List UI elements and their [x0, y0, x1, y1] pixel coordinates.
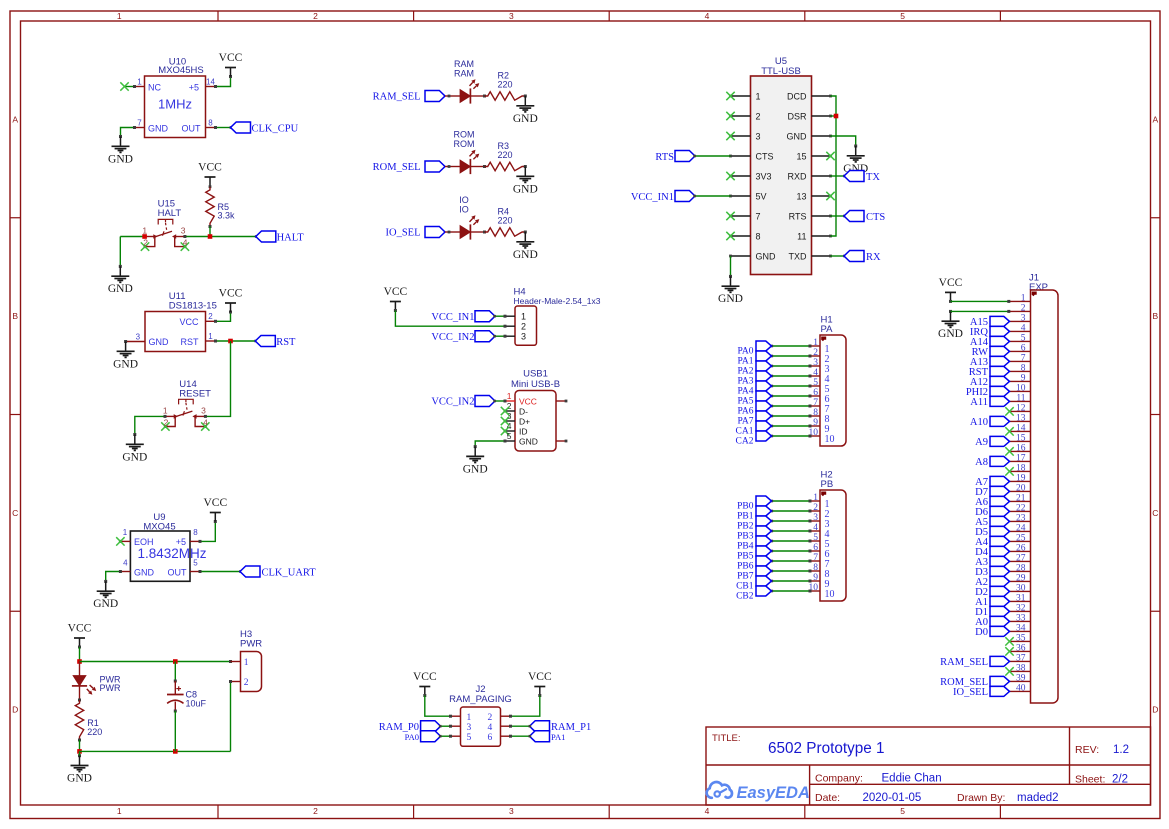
wire U5 RTS to CTS port: [831, 215, 846, 218]
svg-text:VCC: VCC: [519, 396, 537, 406]
svg-text:PA: PA: [821, 324, 834, 335]
svg-text:VCC: VCC: [413, 671, 437, 683]
LED PWR: [72, 662, 96, 701]
svg-text:TITLE:: TITLE:: [712, 733, 741, 744]
svg-text:RAM: RAM: [454, 59, 474, 69]
wire VCC to J2 pin1: [425, 696, 452, 718]
svg-text:OUT: OUT: [182, 124, 202, 134]
svg-text:2: 2: [143, 237, 148, 247]
rev label: [1075, 744, 1129, 756]
svg-text:IO: IO: [459, 205, 469, 215]
svg-text:25: 25: [1016, 534, 1026, 544]
USB1 pin 5 GND: [505, 431, 538, 447]
svg-text:PA0: PA0: [405, 732, 419, 742]
svg-text:5V: 5V: [756, 191, 767, 201]
J1 port net labels: [940, 317, 989, 698]
date label: [815, 792, 1059, 804]
svg-text:A8: A8: [975, 457, 988, 468]
wire ROM_SEL port to LED: [445, 165, 460, 168]
svg-text:VCC: VCC: [939, 277, 963, 289]
R5 value labels: [218, 202, 236, 221]
svg-text:2020-01-05: 2020-01-05: [863, 792, 922, 804]
wire VCC_IN1 port to U5 5V: [693, 195, 730, 198]
svg-text:GND: GND: [513, 113, 538, 125]
wire U11 pin1 to RST port: [214, 340, 257, 343]
svg-text:DSR: DSR: [787, 111, 807, 121]
wire VCC to H4 pin2: [395, 311, 506, 328]
border zone numbers bottom: [117, 806, 905, 816]
wire USB1 pin5 to ground: [474, 440, 507, 449]
svg-text:5: 5: [900, 806, 905, 816]
svg-text:27: 27: [1016, 554, 1026, 564]
LED PWR labels: [100, 674, 121, 693]
junction RST net: [228, 339, 233, 344]
switch U15 labels: [158, 199, 182, 220]
ground at J1 pin2: [938, 310, 963, 340]
svg-text:36: 36: [1016, 644, 1026, 654]
port RST: [255, 336, 296, 348]
svg-text:3: 3: [181, 226, 186, 236]
LED ROM labels: [454, 130, 475, 150]
wire U11 pin2 to VCC: [214, 311, 232, 323]
svg-text:22: 22: [1016, 504, 1026, 514]
svg-text:HALT: HALT: [158, 208, 182, 219]
svg-text:7: 7: [1021, 354, 1026, 364]
svg-text:PA1: PA1: [737, 356, 753, 366]
wire VCC down to power bus: [79, 647, 81, 662]
svg-text:CA1: CA1: [736, 426, 754, 436]
U9 pin names: [134, 537, 207, 577]
ground after R2: [513, 95, 538, 125]
svg-text:1: 1: [467, 713, 472, 723]
svg-text:220: 220: [498, 150, 513, 160]
op-amp U10 body: [145, 76, 206, 138]
port RAM_P1: [530, 721, 592, 733]
wire U10 pin7 to GND: [119, 126, 136, 138]
svg-text:1: 1: [117, 11, 122, 21]
port IO_SEL: [386, 227, 446, 239]
J1 pin stubs: [1010, 301, 1031, 691]
no-connect X at USB1 pins 2-4: [501, 407, 509, 435]
EasyEDA logo: [707, 782, 810, 802]
svg-text:PA3: PA3: [737, 376, 753, 386]
svg-text:1.2: 1.2: [1113, 744, 1129, 756]
J1 reference labels: [1029, 273, 1048, 293]
svg-text:VCC_IN2: VCC_IN2: [431, 332, 474, 343]
svg-text:EasyEDA: EasyEDA: [737, 784, 810, 802]
svg-text:GND: GND: [463, 463, 488, 475]
svg-text:D+: D+: [519, 416, 530, 426]
svg-text:RST: RST: [181, 337, 200, 347]
ground below U10: [108, 137, 133, 166]
supervisor U11 body: [145, 312, 206, 352]
wire U5 DCD-DSR-11 net: [831, 96, 837, 236]
svg-text:20: 20: [1016, 484, 1026, 494]
svg-text:GND: GND: [718, 293, 743, 305]
svg-text:PB: PB: [821, 479, 834, 490]
svg-text:GND: GND: [513, 183, 538, 195]
svg-text:8: 8: [1021, 364, 1026, 374]
svg-text:1: 1: [208, 332, 213, 341]
U10 pin stubs: [135, 87, 216, 128]
svg-text:B: B: [12, 311, 18, 321]
svg-text:3V3: 3V3: [756, 171, 772, 181]
svg-text:13: 13: [796, 191, 806, 201]
svg-text:9: 9: [1021, 374, 1026, 384]
svg-text:30: 30: [1016, 584, 1026, 594]
VCC flag left of J2: [413, 671, 437, 697]
ground after R3: [513, 165, 538, 195]
svg-text:B: B: [1152, 311, 1158, 321]
wire U10 pin8 to CLK_CPU port: [214, 126, 232, 129]
resistor R4: [485, 228, 526, 236]
svg-text:CA2: CA2: [736, 436, 754, 446]
svg-text:TX: TX: [866, 172, 880, 183]
svg-text:RST: RST: [276, 337, 296, 348]
resistor R5: [206, 187, 214, 228]
port TX: [844, 171, 880, 183]
ports H1 PA0..CA2: [756, 341, 772, 441]
svg-text:1: 1: [142, 226, 147, 236]
svg-text:Sheet:: Sheet:: [1075, 774, 1105, 786]
J2 reference labels: [449, 684, 512, 705]
VCC flag right of J2: [528, 671, 552, 697]
svg-text:D: D: [1152, 705, 1158, 715]
svg-text:33: 33: [1016, 614, 1026, 624]
wire J2 pin4 to RAM_P1: [509, 725, 531, 728]
jumper J2 body: [461, 707, 501, 746]
svg-text:RX: RX: [866, 252, 881, 263]
svg-text:13: 13: [1016, 414, 1026, 424]
ground after R4: [513, 231, 538, 261]
svg-text:Date:: Date:: [815, 792, 840, 804]
switch U14 labels: [179, 379, 211, 400]
svg-text:8: 8: [193, 528, 198, 537]
VCC flag above U9: [203, 497, 227, 521]
wire VCC_IN1 to H4 pin1: [493, 315, 506, 318]
USB1 reference labels: [511, 369, 560, 390]
R2 value labels: [498, 71, 513, 90]
H3 reference labels: [240, 629, 262, 650]
H1 reference labels: [821, 315, 834, 336]
LED RAM pin to resistor: [470, 95, 486, 98]
junction C8 bottom: [173, 749, 178, 754]
svg-text:PB7: PB7: [737, 571, 754, 581]
wire U15 pin3 to HALT port: [183, 235, 257, 238]
svg-text:1: 1: [756, 91, 761, 101]
wire RAM_SEL port to LED: [445, 95, 460, 98]
svg-text:4: 4: [488, 723, 493, 733]
svg-text:8: 8: [208, 118, 213, 127]
U10 pin numbers: [137, 77, 215, 127]
svg-text:A10: A10: [970, 417, 988, 428]
svg-text:MXO45HS: MXO45HS: [158, 65, 203, 76]
LED ROM pin to resistor: [470, 165, 486, 168]
pushbutton switch U15: [141, 219, 189, 250]
svg-text:HALT: HALT: [277, 232, 305, 243]
svg-text:maded2: maded2: [1017, 792, 1059, 804]
svg-text:21: 21: [1016, 494, 1026, 504]
wire U14 pin3 to RST net: [204, 341, 231, 418]
svg-text:Drawn By:: Drawn By:: [957, 792, 1005, 804]
svg-text:3: 3: [467, 723, 472, 733]
svg-text:4: 4: [705, 806, 710, 816]
svg-text:VCC: VCC: [198, 162, 222, 174]
svg-text:4: 4: [183, 237, 188, 247]
svg-text:6: 6: [488, 733, 493, 743]
oscillator U10 reference labels: [158, 57, 203, 76]
junction HALT-R5: [208, 234, 213, 239]
VCC flag power section: [68, 623, 92, 649]
svg-text:Mini USB-B: Mini USB-B: [511, 379, 560, 390]
svg-text:40: 40: [1016, 684, 1026, 694]
port VCC_IN2 at USB1: [431, 396, 495, 408]
junction at U5 DSR: [834, 114, 839, 119]
J2 inner pin numbers: [467, 713, 493, 743]
wire RTS port to U5 CTS: [693, 155, 730, 158]
H2 pin stubs: [810, 501, 820, 591]
svg-text:VCC_IN2: VCC_IN2: [431, 397, 474, 408]
USB1 pins 2-4: [505, 401, 530, 437]
wire U9 pin8 to VCC: [199, 520, 217, 543]
wire R5 to HALT net: [209, 227, 211, 237]
H3 inner pin numbers: [244, 658, 249, 688]
no-connect X marks at J1: [1005, 407, 1013, 675]
svg-text:REV:: REV:: [1075, 744, 1099, 756]
USB1 pin 1 VCC: [505, 391, 537, 407]
wire U5 GND right to ground: [831, 136, 858, 148]
port ROM_SEL: [373, 161, 445, 173]
port CLK_UART: [240, 566, 316, 578]
port VCC_IN1 at U5: [631, 191, 695, 203]
wire U10 pin14 to VCC: [214, 75, 232, 88]
U5 pin stubs right: [812, 96, 831, 256]
H4 pin names: [521, 312, 526, 342]
svg-text:17: 17: [1016, 454, 1026, 464]
LED IO labels: [459, 195, 469, 215]
svg-text:PB2: PB2: [737, 521, 754, 531]
port CLK_CPU: [231, 122, 299, 134]
U10 pin names: [148, 82, 201, 133]
capacitor C8: [167, 681, 184, 711]
svg-text:220: 220: [87, 727, 102, 737]
svg-text:2: 2: [208, 312, 213, 321]
ground below U15: [108, 266, 133, 295]
header H1 body: [820, 335, 846, 446]
svg-text:Header-Male-2.54_1x3: Header-Male-2.54_1x3: [514, 296, 601, 306]
wire VCC to J2 pin2: [509, 696, 540, 718]
svg-text:VCC: VCC: [68, 623, 92, 635]
ground below U5: [718, 276, 743, 305]
svg-text:D-: D-: [519, 406, 528, 416]
svg-text:GND: GND: [93, 598, 118, 610]
svg-text:8: 8: [756, 231, 761, 241]
svg-text:PB5: PB5: [737, 551, 754, 561]
H1 outer pin numbers: [809, 338, 819, 438]
svg-text:VCC: VCC: [219, 52, 243, 64]
J1 polarity marker: [1032, 292, 1037, 297]
svg-text:Eddie Chan: Eddie Chan: [882, 773, 942, 785]
wire VCC_IN2 to USB1 pin1: [493, 400, 506, 403]
svg-text:PA7: PA7: [737, 416, 753, 426]
H1 port labels: [736, 346, 754, 446]
svg-text:PWR: PWR: [240, 639, 262, 650]
U5 right stub end dots: [829, 95, 832, 258]
wire IO_SEL port to LED: [445, 231, 460, 234]
svg-text:CB2: CB2: [736, 591, 754, 601]
svg-text:RXD: RXD: [787, 171, 807, 181]
H3 pin stubs: [231, 662, 241, 682]
wire J2 pin6 to PA1: [509, 735, 531, 738]
H4 reference labels: [514, 287, 601, 307]
svg-text:1: 1: [244, 658, 249, 668]
svg-text:PB0: PB0: [737, 501, 754, 511]
port VCC_IN2 at H4: [431, 331, 495, 343]
svg-text:2: 2: [1021, 304, 1026, 314]
svg-text:15: 15: [796, 151, 806, 161]
wire H3 pin2 to bottom bus: [229, 680, 232, 751]
LED IO pin to resistor: [470, 231, 486, 234]
svg-text:VCC: VCC: [179, 317, 199, 327]
svg-text:A: A: [1152, 114, 1158, 124]
U9 pin stubs: [120, 541, 200, 571]
svg-text:4: 4: [705, 11, 710, 21]
no-connect X marks U5 left: [726, 92, 734, 240]
U5 pin names left: [756, 91, 777, 261]
svg-text:11: 11: [797, 231, 806, 241]
port PA0 at J2: [405, 731, 441, 742]
svg-text:PA0: PA0: [737, 346, 753, 356]
wire bus to C8 top: [174, 662, 177, 683]
svg-text:GND: GND: [148, 124, 169, 134]
LED RAM labels: [454, 59, 474, 79]
svg-text:PB3: PB3: [737, 531, 754, 541]
svg-text:RTS: RTS: [655, 152, 674, 163]
svg-text:35: 35: [1016, 634, 1026, 644]
svg-text:14: 14: [206, 77, 215, 86]
svg-text:GND: GND: [113, 358, 138, 370]
svg-text:OUT: OUT: [168, 568, 188, 578]
wires to H2: [771, 500, 812, 593]
junction power bus left: [77, 659, 82, 664]
ground below USB1: [463, 447, 488, 476]
connector J1 body: [1031, 290, 1059, 703]
svg-text:VCC_IN1: VCC_IN1: [631, 192, 674, 203]
svg-text:VCC_IN1: VCC_IN1: [431, 312, 474, 323]
svg-text:PA5: PA5: [737, 396, 753, 406]
ports H2 PB0..CB2: [756, 496, 772, 596]
LED RAM: [460, 79, 479, 103]
wire U5 DSR branch: [831, 115, 837, 117]
svg-text:2: 2: [244, 678, 249, 688]
svg-text:DCD: DCD: [787, 91, 807, 101]
port RX: [844, 251, 881, 263]
svg-text:C: C: [1152, 508, 1158, 518]
svg-text:RESET: RESET: [179, 389, 211, 400]
U5 pin names right: [787, 91, 808, 261]
svg-text:10: 10: [1016, 384, 1026, 394]
resistor R1: [75, 699, 83, 742]
svg-text:GND: GND: [108, 283, 133, 295]
svg-text:RAM_SEL: RAM_SEL: [940, 657, 988, 668]
svg-text:ROM: ROM: [454, 139, 475, 149]
svg-text:PB1: PB1: [737, 511, 754, 521]
header H2 body: [820, 490, 846, 601]
U11 pin names: [149, 317, 200, 347]
U5 left stub end dots: [729, 95, 732, 258]
svg-text:2: 2: [756, 111, 761, 121]
wire ground to U14 pin1: [133, 415, 166, 436]
VCC flag left of H4: [384, 286, 408, 312]
svg-text:C: C: [12, 508, 18, 518]
svg-text:11: 11: [1016, 394, 1025, 404]
svg-text:PA4: PA4: [737, 386, 753, 396]
svg-text:PA1: PA1: [551, 732, 565, 742]
R4 value labels: [498, 207, 513, 226]
svg-text:3: 3: [509, 806, 514, 816]
svg-text:+5: +5: [189, 82, 199, 92]
svg-text:GND: GND: [938, 328, 963, 340]
wire PA0 to J2 pin5: [439, 735, 452, 738]
svg-text:ID: ID: [519, 426, 528, 436]
svg-text:A9: A9: [975, 437, 988, 448]
title text 6502 Prototype 1: [768, 740, 885, 757]
svg-text:5: 5: [193, 558, 198, 567]
border zone letters left: [12, 114, 18, 714]
svg-text:5: 5: [1021, 334, 1026, 344]
svg-text:D0: D0: [975, 627, 988, 638]
no-connect X at U9 pin1: [116, 537, 124, 545]
svg-text:1: 1: [521, 312, 526, 322]
svg-text:RAM: RAM: [454, 69, 474, 79]
svg-text:RAM_PAGING: RAM_PAGING: [449, 694, 512, 705]
svg-text:4: 4: [123, 558, 128, 567]
junction bottom bus left: [77, 749, 82, 754]
U5 reference labels: [761, 56, 801, 77]
U9 reference labels: [143, 512, 175, 533]
svg-text:3: 3: [756, 131, 761, 141]
svg-text:3: 3: [1021, 314, 1026, 324]
svg-text:14: 14: [1016, 424, 1026, 434]
company label: [815, 773, 942, 785]
svg-text:2: 2: [164, 417, 169, 427]
port RTS: [655, 151, 695, 163]
ground at U11 pin3: [113, 340, 138, 370]
svg-text:PB6: PB6: [737, 561, 754, 571]
svg-text:CTS: CTS: [866, 212, 885, 223]
svg-text:PWR: PWR: [100, 683, 121, 693]
port VCC_IN1 at H4: [431, 311, 495, 323]
title block frame: [706, 727, 1151, 805]
svg-text:NC: NC: [148, 82, 161, 92]
H2 outer pin numbers: [809, 493, 819, 593]
svg-text:1MHz: 1MHz: [158, 96, 192, 111]
svg-text:23: 23: [1016, 514, 1026, 524]
svg-text:GND: GND: [122, 451, 147, 463]
svg-text:6502 Prototype 1: 6502 Prototype 1: [768, 740, 885, 757]
J1 port symbols: [990, 316, 1010, 696]
svg-text:A: A: [12, 114, 18, 124]
power bottom bus wire: [80, 750, 231, 752]
svg-text:38: 38: [1016, 664, 1026, 674]
svg-text:37: 37: [1016, 654, 1026, 664]
svg-text:3: 3: [521, 332, 526, 342]
resistor R3: [485, 162, 526, 170]
U9 pin numbers: [123, 528, 199, 567]
wire U5 RXD to TX port: [831, 175, 846, 178]
svg-text:7: 7: [756, 211, 761, 221]
port PA1 at J2: [530, 731, 566, 743]
